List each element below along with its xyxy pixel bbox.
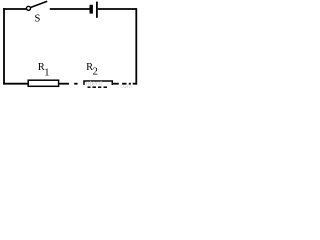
svg-text:com: com <box>120 84 131 89</box>
wire bottom-left segment <box>3 83 28 85</box>
resistor R2 top edge with corner hooks <box>84 81 112 85</box>
svg-text:2: 2 <box>93 67 98 78</box>
R2 dashed bottom edge <box>88 86 91 88</box>
switch S contact circle <box>27 6 31 10</box>
wire dash between R1 and R2 <box>74 83 77 85</box>
switch S blade <box>30 1 47 7</box>
wire right side <box>135 8 137 85</box>
background <box>0 0 141 89</box>
wire R2 right stub <box>112 83 119 85</box>
wire left side <box>3 8 5 85</box>
battery long plate <box>96 2 98 18</box>
wire battery to top-right corner <box>98 8 137 10</box>
resistor R1 box <box>28 80 58 86</box>
wire dot dash <box>129 83 131 85</box>
wire top-left segment <box>3 8 26 10</box>
wire dash <box>122 83 126 85</box>
wire switch to battery <box>50 8 90 10</box>
battery short plate <box>90 5 93 14</box>
svg-text:1: 1 <box>44 67 49 78</box>
svg-text:ntent: ntent <box>86 79 104 88</box>
wire bottom-right corner foot <box>133 83 137 85</box>
svg-text:S: S <box>35 13 41 24</box>
wire R1 right stub <box>59 83 69 85</box>
